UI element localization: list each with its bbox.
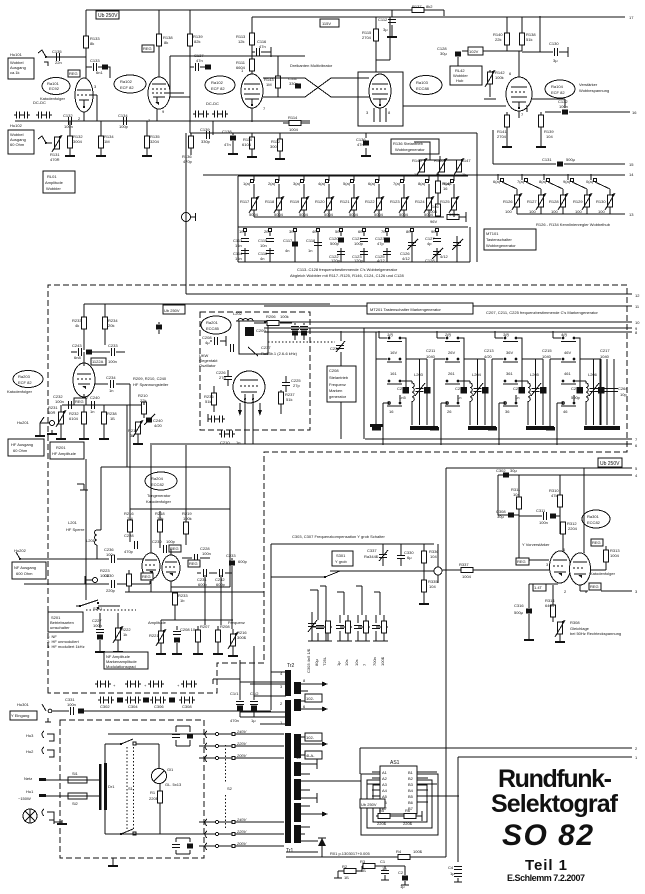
svg-text:3k: 3k bbox=[130, 433, 134, 438]
capacitor C201 bbox=[156, 325, 162, 330]
svg-text:240V: 240V bbox=[236, 817, 247, 822]
svg-text:Amplitude: Amplitude bbox=[45, 180, 64, 185]
svg-text:ECC82: ECC82 bbox=[151, 482, 165, 487]
svg-text:R4: R4 bbox=[396, 849, 402, 854]
svg-text:Modulationsgrad: Modulationsgrad bbox=[106, 664, 136, 669]
svg-text:ECF 82: ECF 82 bbox=[120, 85, 134, 90]
svg-text:330p: 330p bbox=[201, 139, 211, 144]
svg-text:A5: A5 bbox=[382, 794, 388, 799]
svg-text:EC92: EC92 bbox=[49, 86, 60, 91]
tube label oval Ra101 EC92 bbox=[42, 78, 70, 95]
svg-text:C230: C230 bbox=[152, 539, 162, 544]
capacitor C111 bbox=[295, 84, 301, 89]
caps lower right of psu box bbox=[176, 838, 190, 854]
triode V1 (EC92) bbox=[75, 78, 93, 112]
svg-text:12: 12 bbox=[635, 293, 640, 298]
caps right of R206 bbox=[295, 323, 304, 340]
capacitor C208b bbox=[173, 632, 181, 635]
svg-text:100n: 100n bbox=[559, 104, 568, 109]
svg-text:161: 161 bbox=[390, 371, 397, 376]
resistor R111 bbox=[250, 59, 255, 71]
label box REG5 bbox=[516, 558, 529, 565]
svg-text:220Б: 220Б bbox=[377, 821, 387, 826]
svg-text:47n: 47n bbox=[357, 142, 364, 147]
label box REG8 bbox=[188, 560, 200, 567]
svg-text:330p: 330p bbox=[289, 81, 299, 86]
svg-text:C134: C134 bbox=[118, 113, 128, 118]
svg-text:4μ: 4μ bbox=[205, 340, 210, 345]
wire box around banks bbox=[476, 133, 478, 262]
svg-text:0(a): 0(a) bbox=[586, 179, 594, 184]
svg-text:B5: B5 bbox=[408, 794, 414, 799]
svg-text:C217: C217 bbox=[600, 348, 610, 353]
svg-text:B1: B1 bbox=[408, 770, 414, 775]
svg-text:10s: 10s bbox=[354, 660, 359, 666]
svg-text:A3: A3 bbox=[382, 782, 388, 787]
wire left marker ground bbox=[364, 328, 376, 439]
capacitor C134 bbox=[124, 117, 127, 125]
resistor R223g bbox=[127, 574, 132, 586]
Tr1 secondary bars bbox=[294, 734, 301, 758]
svg-text:C1: C1 bbox=[380, 859, 386, 864]
svg-text:1n5: 1n5 bbox=[399, 395, 406, 400]
group 4 bbox=[374, 592, 388, 627]
svg-text:100n: 100n bbox=[64, 124, 73, 129]
wire pot bottoms bbox=[254, 216, 438, 218]
svg-text:Ub 250V: Ub 250V bbox=[98, 13, 118, 19]
svg-text:4k: 4k bbox=[75, 323, 79, 328]
capacitor C234 bbox=[94, 383, 130, 385]
svg-text:3(a): 3(a) bbox=[293, 181, 301, 186]
svg-text:REG: REG bbox=[517, 559, 526, 564]
resistor R206 bbox=[254, 322, 292, 324]
bottom bus wire bbox=[286, 852, 446, 857]
wire Y input vertical bbox=[270, 577, 272, 710]
label box RL42 Wobbler Hub bbox=[450, 66, 482, 85]
caps row lower bbox=[98, 697, 114, 704]
resistor R139 bbox=[188, 34, 193, 46]
svg-text:C316: C316 bbox=[514, 603, 524, 608]
svg-text:26V: 26V bbox=[448, 350, 455, 355]
svg-text:B4: B4 bbox=[408, 788, 414, 793]
svg-text:4/20: 4/20 bbox=[154, 423, 163, 428]
svg-text:Frequenz: Frequenz bbox=[329, 382, 346, 387]
caps row upper bbox=[95, 681, 111, 688]
wire line 6 bbox=[150, 443, 632, 445]
svg-text:100: 100 bbox=[551, 209, 558, 214]
wire line 13 bbox=[517, 213, 625, 215]
wire line 3 bbox=[580, 585, 632, 591]
potentiometer R147 bbox=[454, 158, 464, 175]
resistor R138 bbox=[158, 10, 160, 78]
feedback wires tone section bbox=[101, 405, 230, 587]
svg-text:C213: C213 bbox=[484, 348, 494, 353]
svg-text:120p: 120p bbox=[354, 258, 364, 263]
resistor R310 bbox=[558, 495, 563, 507]
svg-text:10n: 10n bbox=[260, 243, 267, 248]
svg-text:Wobbegenerator: Wobbegenerator bbox=[486, 243, 516, 248]
svg-text:Wobbler: Wobbler bbox=[46, 186, 61, 191]
svg-text:100p: 100p bbox=[166, 539, 176, 544]
label box 1.4T bbox=[533, 584, 546, 591]
svg-text:200V: 200V bbox=[236, 753, 247, 758]
capacitor C1 bbox=[381, 866, 389, 880]
svg-text:Ra102: Ra102 bbox=[120, 79, 133, 84]
svg-text:600p: 600p bbox=[238, 559, 248, 564]
svg-text:C210: C210 bbox=[220, 440, 230, 445]
svg-text:R130: R130 bbox=[596, 199, 606, 204]
svg-text:100p: 100p bbox=[119, 124, 129, 129]
label box MT101 bbox=[484, 229, 536, 250]
svg-text:1040: 1040 bbox=[426, 354, 436, 359]
wire preamp out bbox=[62, 384, 142, 405]
capacitor C135 bbox=[57, 53, 60, 61]
svg-text:L204: L204 bbox=[472, 372, 482, 377]
label box R201 HF Amplitude bbox=[50, 442, 84, 459]
svg-text:4LA-: 4LA- bbox=[306, 753, 315, 758]
svg-text:7(a): 7(a) bbox=[393, 181, 401, 186]
svg-text:6n8: 6n8 bbox=[74, 355, 81, 360]
resistor R139c bbox=[540, 112, 542, 143]
svg-text:ECF 82: ECF 82 bbox=[211, 86, 225, 91]
svg-text:1n: 1n bbox=[308, 248, 312, 253]
svg-text:R1: R1 bbox=[150, 790, 156, 795]
svg-text:3(f): 3(f) bbox=[503, 332, 510, 337]
svg-text:R221: R221 bbox=[149, 633, 159, 638]
pentode V3 bbox=[369, 74, 391, 108]
potentiometer R308 bbox=[555, 620, 565, 637]
resistor R311 bbox=[517, 497, 522, 509]
svg-text:C112: C112 bbox=[378, 17, 388, 22]
label box HF Ausgang bbox=[8, 439, 44, 456]
svg-text:Katodenfolger: Katodenfolger bbox=[146, 499, 172, 504]
svg-text:C234: C234 bbox=[106, 375, 116, 380]
svg-text:1M: 1M bbox=[104, 139, 110, 144]
svg-text:Ra102: Ra102 bbox=[211, 80, 224, 85]
svg-text:100Б: 100Б bbox=[380, 656, 385, 666]
svg-text:A1: A1 bbox=[382, 770, 388, 775]
svg-text:8k2: 8k2 bbox=[426, 4, 433, 9]
svg-text:C213: C213 bbox=[455, 386, 465, 391]
mains transformer primary bars bbox=[99, 764, 102, 810]
potentiometer R142 bbox=[485, 70, 495, 87]
svg-text:C131: C131 bbox=[542, 157, 552, 162]
svg-text:Selektograf: Selektograf bbox=[491, 790, 619, 818]
svg-text:C1/1: C1/1 bbox=[230, 691, 239, 696]
capacitor C4 bbox=[454, 867, 462, 870]
wire line 2 bbox=[360, 747, 632, 749]
wire line 1 bbox=[458, 756, 632, 758]
svg-text:C118: C118 bbox=[306, 238, 316, 243]
svg-text:82k: 82k bbox=[194, 39, 200, 44]
capacitor C132b bbox=[562, 110, 568, 115]
svg-text:1Б: 1Б bbox=[110, 416, 115, 421]
svg-text:R145: R145 bbox=[412, 158, 422, 163]
svg-text:Y Eingang: Y Eingang bbox=[11, 713, 29, 718]
svg-text:Tr1: Tr1 bbox=[286, 848, 294, 854]
resistor R136 bbox=[189, 136, 194, 148]
svg-text:47p: 47p bbox=[377, 241, 384, 246]
svg-text:C302: C302 bbox=[496, 468, 506, 473]
potentiometer R217 bbox=[133, 420, 143, 437]
svg-text:C132: C132 bbox=[63, 113, 73, 118]
svg-text:47n: 47n bbox=[196, 58, 203, 63]
svg-text:R6: R6 bbox=[405, 808, 411, 813]
svg-text:REG: REG bbox=[69, 71, 78, 76]
svg-text:Tr2: Tr2 bbox=[287, 663, 295, 669]
resistor R6 bbox=[404, 814, 416, 819]
svg-text:C2: C2 bbox=[398, 870, 404, 875]
wire rail pot bank (line 14) bbox=[238, 175, 468, 177]
svg-text:220Б: 220Б bbox=[403, 821, 413, 826]
svg-text:C128: C128 bbox=[425, 258, 435, 263]
pentode V2 bbox=[241, 74, 263, 108]
svg-text:L205: L205 bbox=[530, 372, 540, 377]
svg-text:L201: L201 bbox=[86, 538, 96, 543]
capacitor C130 bbox=[522, 47, 568, 57]
svg-text:R206: R206 bbox=[266, 314, 276, 319]
svg-text:A4: A4 bbox=[382, 788, 388, 793]
tube label oval Ra104 bbox=[545, 80, 575, 98]
svg-text:1μ: 1μ bbox=[450, 871, 455, 876]
svg-text:Hu3: Hu3 bbox=[26, 733, 34, 738]
svg-text:Si2: Si2 bbox=[72, 801, 79, 806]
svg-text:100n: 100n bbox=[108, 359, 117, 364]
svg-text:100k: 100k bbox=[280, 314, 289, 319]
svg-text:5(a): 5(a) bbox=[343, 181, 351, 186]
svg-text:1n: 1n bbox=[236, 440, 240, 445]
svg-text:Tastenschalter: Tastenschalter bbox=[486, 237, 512, 242]
wire long vertical to AS1 bbox=[445, 468, 447, 640]
compensation bank C303-C307 bbox=[306, 586, 388, 673]
svg-text:1040: 1040 bbox=[600, 354, 610, 359]
potentiometer R145 bbox=[417, 158, 427, 175]
resistor R110 bbox=[251, 133, 253, 153]
svg-text:100n: 100n bbox=[202, 551, 211, 556]
svg-text:2б: 2б bbox=[264, 229, 269, 234]
svg-text:Wobbegenerator: Wobbegenerator bbox=[395, 147, 425, 152]
capacitor C138 bbox=[230, 136, 236, 141]
label box MT201 bbox=[367, 303, 473, 314]
svg-text:1122A: 1122A bbox=[92, 359, 104, 364]
svg-text:3μ: 3μ bbox=[553, 58, 558, 63]
svg-text:1k: 1k bbox=[123, 632, 127, 637]
HF preamp cathode follower cluster bbox=[7, 304, 169, 459]
svg-text:bei 50Hz Rechteckspannung: bei 50Hz Rechteckspannung bbox=[570, 631, 621, 636]
svg-text:1b: 1b bbox=[180, 598, 185, 603]
capacitor C128b bbox=[457, 51, 459, 66]
wires tone tubes bbox=[151, 505, 171, 592]
wire input y57 bbox=[46, 56, 86, 58]
svg-text:Ub 250V: Ub 250V bbox=[164, 308, 180, 313]
svg-text:100k: 100k bbox=[183, 516, 192, 521]
svg-text:102-: 102- bbox=[306, 735, 315, 740]
svg-text:461: 461 bbox=[564, 371, 571, 376]
svg-text:R147: R147 bbox=[461, 158, 471, 163]
svg-text:100n: 100n bbox=[539, 520, 548, 525]
selector contacts bottom bbox=[108, 817, 284, 850]
svg-text:R127: R127 bbox=[527, 199, 537, 204]
svg-text:generator: generator bbox=[329, 394, 347, 399]
svg-text:36V: 36V bbox=[506, 350, 513, 355]
svg-text:Hu102: Hu102 bbox=[10, 123, 23, 128]
wire vertical feed from top section bbox=[185, 133, 187, 294]
resistor R4 bbox=[398, 855, 410, 860]
svg-text:46: 46 bbox=[563, 409, 568, 414]
svg-text:C117: C117 bbox=[283, 238, 293, 243]
capacitor C133 bbox=[86, 67, 110, 78]
resistor R133 bbox=[84, 36, 89, 48]
svg-text:16n: 16n bbox=[235, 243, 242, 248]
label box C208 Stelantrieb bbox=[336, 341, 345, 352]
svg-text:2704: 2704 bbox=[497, 134, 507, 139]
capacitor C132 bbox=[69, 117, 72, 125]
svg-text:2(a): 2(a) bbox=[268, 181, 276, 186]
svg-text:5004: 5004 bbox=[374, 212, 384, 217]
svg-text:Ra203: Ra203 bbox=[18, 374, 31, 379]
svg-text:REG: REG bbox=[590, 584, 599, 589]
pentode V4 bbox=[506, 77, 532, 111]
wire Ub rail top left bbox=[86, 10, 444, 16]
svg-text:C135: C135 bbox=[52, 49, 62, 54]
svg-text:Katodenfolger: Katodenfolger bbox=[7, 389, 33, 394]
svg-text:Hub: Hub bbox=[456, 78, 464, 83]
svg-text:200V: 200V bbox=[236, 841, 247, 846]
label box R36 Stelantrieb bbox=[391, 139, 439, 154]
svg-text:C113..C128 frequenzbestimmende: C113..C128 frequenzbestimmende C's Wobbe… bbox=[297, 267, 398, 272]
svg-text:8k: 8k bbox=[90, 41, 94, 46]
svg-text:1004: 1004 bbox=[610, 553, 620, 558]
svg-text:30μ: 30μ bbox=[440, 51, 447, 56]
wire V3 output to V4 grid bbox=[403, 105, 506, 107]
svg-text:T25L: T25L bbox=[322, 656, 327, 666]
svg-text:5004: 5004 bbox=[299, 212, 309, 217]
label box Ub 250V bbox=[96, 11, 119, 19]
wire tube1b anode coupling bbox=[165, 56, 305, 97]
svg-text:8(a): 8(a) bbox=[539, 179, 547, 184]
Tr1 taps right bbox=[301, 737, 361, 841]
potentiometer R131 bbox=[52, 135, 62, 152]
dotted link S1 bbox=[127, 747, 134, 831]
capacitor C116 bbox=[252, 47, 271, 57]
svg-text:500μ: 500μ bbox=[566, 157, 576, 162]
dashed section border bbox=[48, 285, 627, 693]
svg-text:C211: C211 bbox=[426, 348, 436, 353]
svg-text:6(a): 6(a) bbox=[368, 181, 376, 186]
marker cell 4 bbox=[546, 331, 628, 445]
triode V8a bbox=[550, 551, 571, 583]
svg-text:C233: C233 bbox=[226, 553, 236, 558]
ground R134 bbox=[96, 152, 106, 157]
resistor R114 bbox=[289, 121, 301, 126]
wire Tr2 top rail bbox=[213, 679, 286, 696]
resistor R312 bbox=[561, 522, 566, 534]
svg-text:10: 10 bbox=[296, 755, 301, 760]
trimmer C240 bbox=[146, 418, 152, 423]
wire line 4 bbox=[498, 474, 632, 476]
svg-text:3μ: 3μ bbox=[383, 27, 388, 32]
svg-text:1M: 1M bbox=[266, 82, 272, 87]
svg-text:C218: C218 bbox=[571, 386, 581, 391]
resistor R138 bbox=[521, 17, 523, 51]
capacitor C112 bbox=[391, 10, 393, 33]
svg-text:104: 104 bbox=[546, 134, 553, 139]
switch S301 bbox=[332, 551, 353, 566]
ground R135 bbox=[142, 152, 152, 157]
resistor R233 bbox=[83, 304, 85, 350]
group 3 bbox=[356, 586, 370, 627]
fuse Si2 bbox=[68, 793, 87, 799]
svg-text:C215: C215 bbox=[542, 348, 552, 353]
svg-text:96V: 96V bbox=[430, 219, 437, 224]
svg-text:~150W: ~150W bbox=[18, 796, 31, 801]
svg-text:Ra204: Ra204 bbox=[151, 476, 164, 481]
tube label oval Ra102 bbox=[205, 76, 235, 94]
svg-text:NF Ausgang: NF Ausgang bbox=[14, 565, 36, 570]
diode D1 bbox=[321, 846, 323, 852]
svg-text:HF Spannungsteiler: HF Spannungsteiler bbox=[133, 382, 169, 387]
svg-text:C303, C307 Frequenzkompensatio: C303, C307 Frequenzkompensation Y grob S… bbox=[292, 534, 385, 539]
svg-text:22n: 22n bbox=[55, 60, 62, 65]
svg-text:Ub 250V: Ub 250V bbox=[600, 461, 620, 467]
wire bottom row y121 bbox=[15, 120, 310, 122]
svg-text:C243: C243 bbox=[72, 343, 82, 348]
svg-text:470n: 470n bbox=[230, 718, 239, 723]
svg-text:R209, R210, C240: R209, R210, C240 bbox=[133, 376, 167, 381]
connector Hu102 bbox=[38, 136, 46, 143]
svg-text:C4: C4 bbox=[448, 865, 454, 870]
resistor R335 bbox=[422, 580, 427, 592]
svg-text:4(f): 4(f) bbox=[561, 332, 568, 337]
wire line 8 bbox=[264, 331, 632, 333]
svg-text:1n: 1n bbox=[109, 388, 113, 393]
svg-text:Oszillator: Oszillator bbox=[199, 363, 216, 368]
switch contacts top bbox=[120, 743, 122, 745]
svg-text:1Б: 1Б bbox=[344, 875, 349, 880]
capacitor C237i bbox=[231, 344, 234, 352]
svg-text:5004: 5004 bbox=[274, 212, 284, 217]
capacitor C311 bbox=[544, 512, 547, 520]
svg-text:REG: REG bbox=[142, 574, 151, 579]
svg-text:361: 361 bbox=[506, 371, 513, 376]
wire line 14 bbox=[203, 174, 625, 176]
svg-text:4б: 4б bbox=[312, 229, 317, 234]
power supply dashed box bbox=[60, 720, 204, 858]
svg-text:46V: 46V bbox=[564, 350, 571, 355]
capacitor C137 bbox=[190, 66, 205, 68]
svg-text:SO 82: SO 82 bbox=[502, 819, 593, 852]
marker cell 1 bbox=[372, 331, 438, 445]
svg-text:100k: 100k bbox=[495, 75, 504, 80]
connector circle NF bbox=[93, 578, 98, 583]
svg-text:HF Ausgang: HF Ausgang bbox=[11, 442, 33, 447]
svg-text:B2: B2 bbox=[408, 776, 414, 781]
svg-text:R125: R125 bbox=[440, 199, 450, 204]
svg-text:C130: C130 bbox=[549, 41, 559, 46]
svg-text:L203: L203 bbox=[414, 372, 424, 377]
svg-text:Hu1: Hu1 bbox=[26, 789, 34, 794]
resistor R314 bbox=[551, 605, 556, 617]
svg-text:R2: R2 bbox=[342, 864, 348, 869]
svg-text:4/12: 4/12 bbox=[440, 254, 449, 259]
svg-text:R121: R121 bbox=[340, 199, 350, 204]
rectifier Gl1 bbox=[150, 744, 159, 769]
resistor R1 bbox=[158, 791, 163, 803]
svg-text:80μ: 80μ bbox=[314, 659, 319, 666]
svg-text:1n: 1n bbox=[90, 409, 94, 414]
svg-text:Rundfunk-: Rundfunk- bbox=[498, 765, 612, 793]
svg-text:102-: 102- bbox=[306, 696, 315, 701]
